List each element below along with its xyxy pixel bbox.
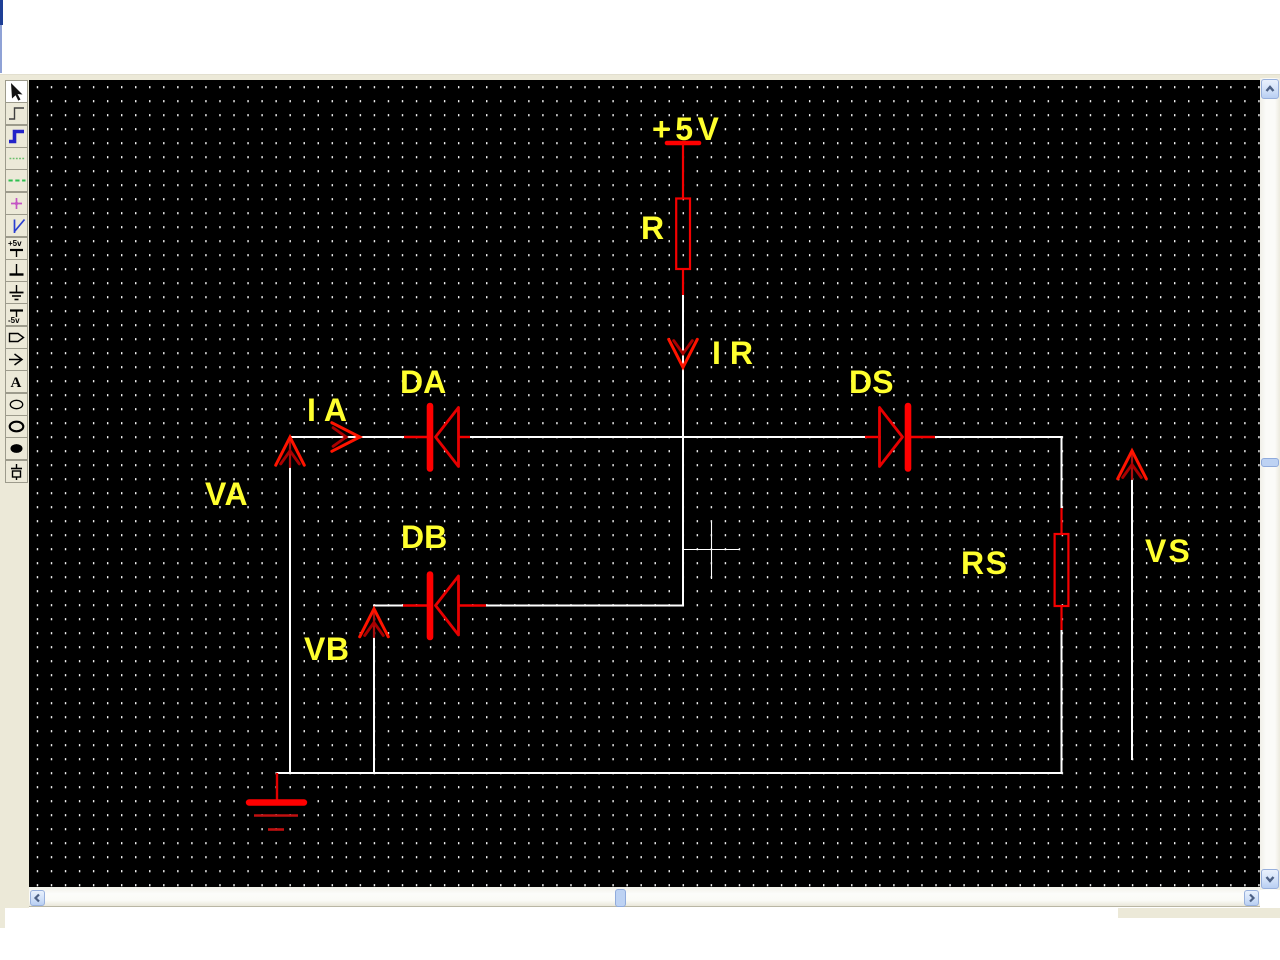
crosshair cursor — [684, 522, 739, 579]
v-scroll down button — [1261, 869, 1279, 889]
vertical scrollbar track — [1260, 78, 1280, 890]
resistor R — [676, 199, 690, 270]
left toolbar column — [0, 80, 29, 908]
wire: VB vertical — [373, 634, 375, 774]
svg-text:-5v: -5v — [8, 316, 20, 325]
h-scroll right button — [1244, 890, 1259, 906]
svg-text:IA: IA — [307, 392, 355, 428]
wire: VA vertical — [289, 465, 291, 774]
wire: center vertical below R — [682, 295, 684, 607]
top beige strip — [0, 74, 1280, 80]
voltage probe arrow VA — [276, 437, 305, 467]
svg-text:VB: VB — [304, 631, 349, 667]
h-scroll thumb — [615, 889, 626, 907]
ground — [249, 773, 304, 830]
power +5V bar — [667, 141, 699, 146]
svg-text:A: A — [11, 375, 22, 391]
svg-text:+5V: +5V — [652, 111, 723, 147]
svg-text:DB: DB — [401, 519, 447, 555]
svg-text:RS: RS — [961, 545, 1008, 581]
v-scroll up button — [1261, 79, 1279, 99]
wire: main horizontal node A (VA to DA) — [290, 436, 404, 438]
diode DS — [865, 406, 935, 469]
bottom-left beige edge — [0, 908, 5, 928]
resistor RS — [1055, 534, 1069, 606]
svg-text:DS: DS — [849, 364, 893, 400]
v-scroll thumb — [1261, 458, 1279, 467]
svg-text:VS: VS — [1145, 533, 1192, 569]
status bar right beige — [1118, 908, 1280, 918]
svg-text:IR: IR — [712, 335, 762, 371]
power +5V pin — [682, 144, 684, 199]
voltage probe arrow VS — [1118, 451, 1147, 479]
wire: RS top segment — [1061, 436, 1063, 508]
svg-text:R: R — [641, 210, 664, 246]
horizontal scrollbar track — [29, 887, 1260, 907]
resistor RS bottom pin — [1060, 606, 1062, 630]
wire: VB corner to DB — [373, 605, 403, 607]
current probe arrow IR — [669, 339, 698, 367]
resistor RS top pin — [1060, 508, 1062, 534]
window edge blue sliver — [0, 0, 3, 25]
svg-text:DA: DA — [400, 364, 446, 400]
wire: RS bottom to bottom rail — [1061, 630, 1063, 773]
wire: DA to DS — [470, 436, 865, 438]
h-scroll left button — [30, 890, 45, 906]
wire: bottom rail — [277, 772, 1062, 774]
voltage probe arrow VB — [360, 609, 389, 637]
svg-text:VA: VA — [205, 476, 248, 512]
diode DB — [403, 575, 486, 638]
svg-text:+5v: +5v — [8, 239, 22, 248]
wire: DB to center vertical — [486, 605, 684, 607]
current probe arrow IA — [332, 423, 360, 452]
wire: DS to RS corner — [935, 436, 1062, 438]
resistor R bottom pin — [682, 269, 684, 295]
wire: VS vertical — [1131, 476, 1133, 760]
diode DA — [404, 406, 470, 469]
